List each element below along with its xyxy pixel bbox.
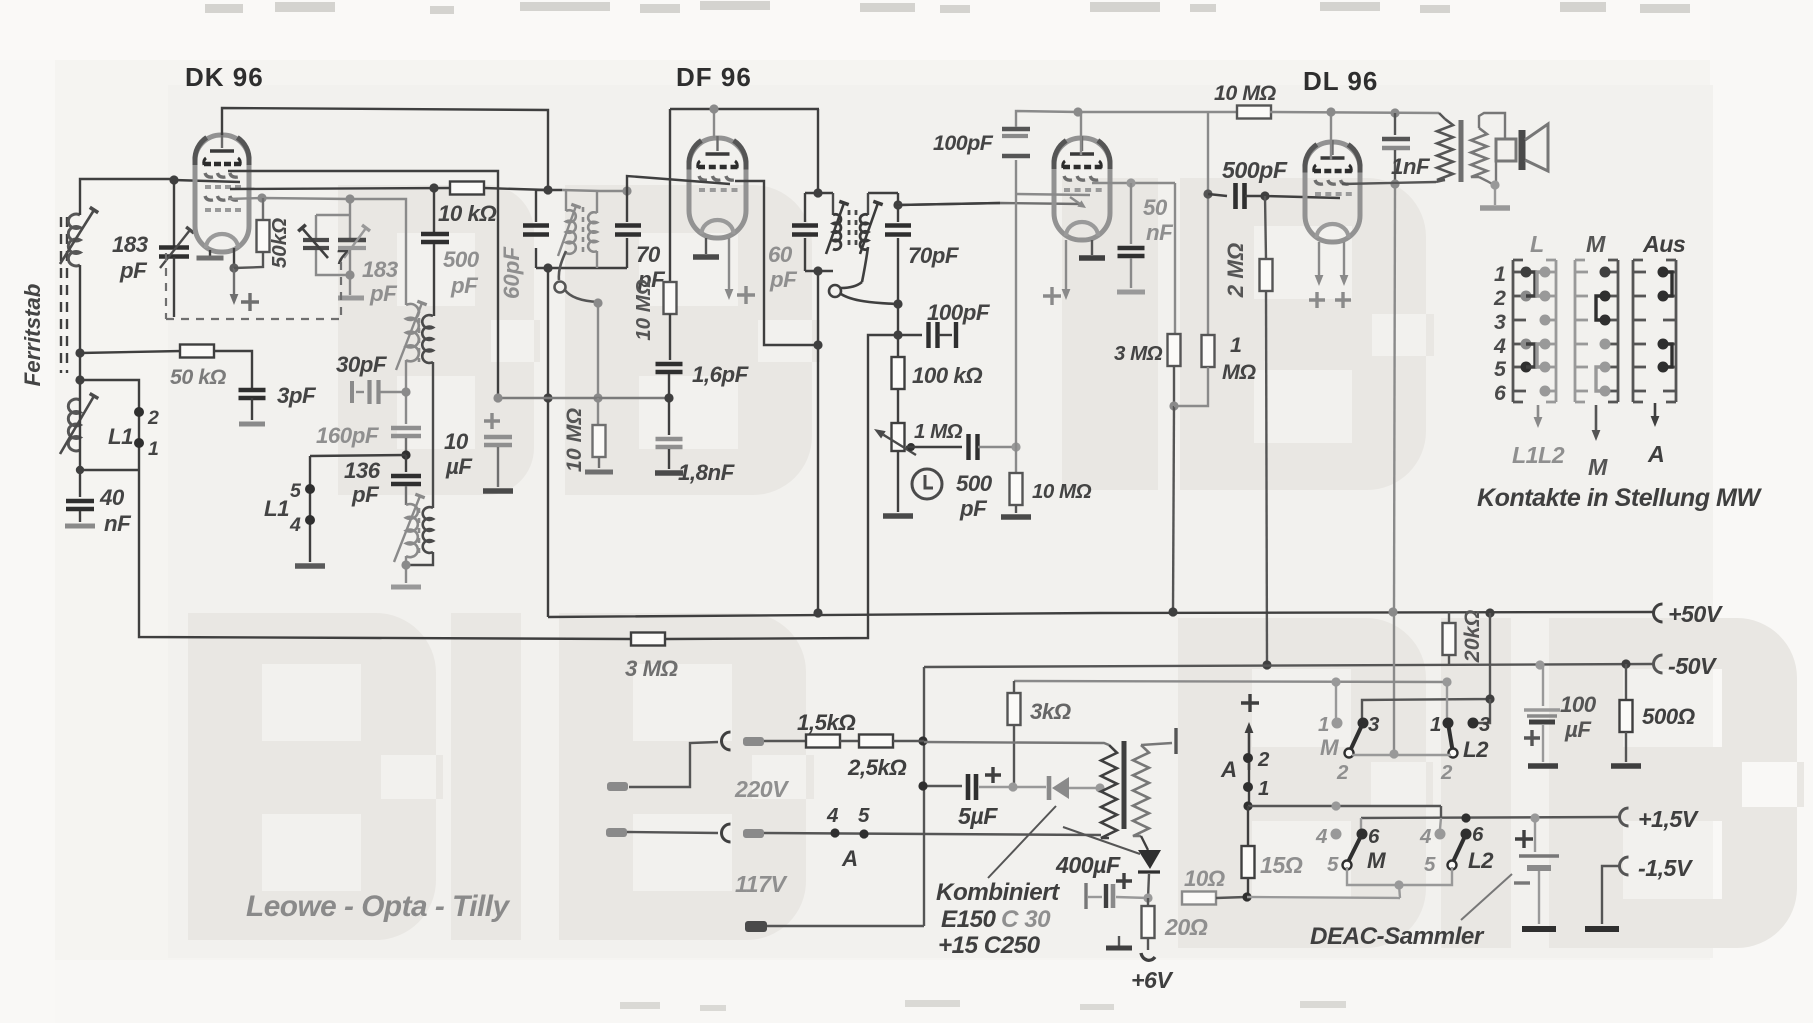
svg-text:10 MΩ: 10 MΩ (632, 279, 655, 341)
svg-text:500pF: 500pF (1222, 157, 1288, 183)
svg-text:100pF: 100pF (927, 300, 991, 325)
svg-text:L2: L2 (1468, 848, 1494, 873)
svg-text:4: 4 (1419, 825, 1432, 848)
labels A 2 1 (1220, 748, 1270, 800)
capacitor 70pF IFT2 (885, 226, 911, 235)
label 400uF (1055, 852, 1121, 878)
tube DK96 (195, 133, 249, 252)
svg-text:136: 136 (344, 458, 381, 483)
wire ferrite column (75, 265, 139, 474)
wire audio coupling long (1394, 184, 1395, 753)
node DAF96 top (1073, 107, 1082, 155)
svg-text:3: 3 (1479, 713, 1491, 736)
svg-text:MΩ: MΩ (1222, 360, 1256, 384)
label 30pF (336, 352, 388, 377)
paper wash center (168, 85, 1713, 958)
label 1MOhm (1222, 333, 1256, 384)
wire output rail right (1270, 107, 1439, 117)
capacitor 136pF (391, 455, 421, 505)
node 160pF junction (401, 450, 410, 459)
heater transformer core (1122, 741, 1127, 829)
oscillator transformer coils (558, 191, 597, 268)
wire DK96 10k row (230, 183, 452, 192)
svg-text:1: 1 (1430, 713, 1441, 736)
svg-text:2: 2 (1336, 761, 1349, 784)
plug bar 220V (743, 737, 764, 746)
wire DL96 anode (1342, 182, 1436, 184)
heater transformer left winding (924, 742, 1117, 838)
antenna coil L lower (60, 394, 98, 455)
output transformer primary (1436, 113, 1453, 182)
svg-text:+1,5V: +1,5V (1638, 806, 1700, 832)
wire detector line (898, 203, 1082, 205)
capacitor 160pF (391, 428, 421, 455)
node 2MOhm junction (1260, 191, 1269, 200)
svg-text:DL 96: DL 96 (1303, 66, 1378, 96)
svg-text:100pF: 100pF (933, 131, 994, 155)
wire bus to detector (666, 335, 896, 639)
wire L2-4 drop (1440, 818, 1441, 829)
wire tank bottom down (543, 268, 552, 617)
resistor 3MOhm (1168, 183, 1181, 411)
capacitor 500pF AF (1208, 183, 1264, 209)
svg-text:3pF: 3pF (277, 383, 317, 408)
label 10MOhm osc rotated (562, 408, 586, 473)
label 10kOhm (438, 201, 496, 226)
IFT2 coils (826, 193, 883, 254)
label 10Ohm (1184, 866, 1225, 891)
ground 400uF (1106, 936, 1132, 948)
label 3pF (277, 383, 317, 408)
output transformer secondary (1471, 113, 1505, 185)
svg-text:220V: 220V (734, 776, 790, 802)
label +6V (1131, 967, 1174, 993)
label 70pF IFT2 (908, 243, 960, 268)
capacitor 1.6pF (656, 364, 683, 398)
svg-text:500: 500 (443, 247, 480, 272)
label 100kOhm (912, 363, 982, 388)
osc tank coil pair lower (394, 362, 433, 562)
label 220V (734, 776, 790, 802)
resistor 100kOhm (892, 357, 905, 423)
speaker (1496, 124, 1548, 185)
wire DAF96 anode side (1092, 178, 1175, 187)
wire 100kOhm column (893, 304, 902, 358)
svg-text:4: 4 (1493, 334, 1506, 358)
wire output rail to 500pF (1203, 112, 1212, 199)
selenium diode (1013, 776, 1105, 800)
resistor 10MOhm DF96 (664, 282, 677, 360)
label 5uF (958, 803, 998, 829)
resistor 1.5kOhm (806, 735, 840, 748)
wire AVC to 50k (80, 351, 182, 353)
svg-text:40: 40 (99, 485, 125, 510)
wire osc grid leak (593, 303, 602, 403)
svg-text:1: 1 (1230, 333, 1241, 357)
wire 50k to 3pF (214, 351, 252, 388)
wire grid into DK96 (174, 180, 240, 182)
svg-text:A: A (1220, 757, 1237, 782)
label 100uF (1560, 692, 1597, 742)
label 136pF (344, 458, 381, 507)
svg-text:6: 6 (1368, 825, 1380, 848)
arrow Aus bank (1651, 403, 1660, 427)
oscillator padder frame (316, 199, 350, 275)
label 1MOhm pot (914, 420, 963, 443)
capacitor 50nF (1117, 183, 1145, 292)
svg-text:A: A (841, 846, 858, 871)
svg-text:Kombiniert: Kombiniert (936, 879, 1060, 906)
svg-text:10 MΩ: 10 MΩ (1032, 480, 1092, 503)
label Aus bank (1642, 231, 1686, 257)
wire -1.5V to ground (1585, 866, 1620, 929)
labels L2 lower (1419, 823, 1494, 876)
label Kontakte in Stellung MW (1477, 484, 1762, 512)
svg-text:160pF: 160pF (316, 423, 380, 448)
svg-text:1: 1 (1258, 777, 1269, 800)
label Leowe-Opta-Tilly (246, 890, 511, 923)
capacitor 500pF coupling (906, 434, 1021, 460)
capacitor 1.8nF (655, 398, 683, 473)
svg-text:20kΩ: 20kΩ (1460, 610, 1484, 664)
rectifier diode lower (1138, 836, 1161, 903)
capacitor 500pF osc (421, 188, 449, 316)
wire +50V rail (548, 607, 1654, 617)
ground speaker (1480, 180, 1510, 208)
wire rectifier line (918, 781, 962, 790)
watermark letters (188, 178, 1804, 948)
label M below (1588, 454, 1608, 480)
switch L2 lower (1435, 829, 1472, 870)
osc coupling coil pair (396, 301, 433, 370)
grid arrow DAF96 (1070, 197, 1086, 208)
svg-text:3: 3 (1368, 713, 1380, 736)
label 500pF osc (443, 247, 480, 298)
arrow M bank (1592, 405, 1601, 441)
heater transformer right winding (1133, 728, 1176, 836)
filament arrows DL96 (1309, 242, 1351, 308)
resistor 20kOhm (1443, 612, 1456, 665)
resistor 50kOhm screen (234, 198, 270, 268)
scan artifacts top edge (205, 1, 1690, 14)
svg-text:60: 60 (768, 242, 793, 267)
wire screen bypass rail (493, 393, 668, 402)
plug bar 117V (743, 829, 764, 838)
svg-text:+50V: +50V (1668, 601, 1724, 627)
resistor 10MOhm feedback (1237, 106, 1271, 119)
label 500pF coupling (956, 471, 993, 521)
oscillator tank frame (536, 185, 632, 272)
svg-text:20Ω: 20Ω (1164, 914, 1208, 940)
label 20Ohm (1164, 914, 1208, 940)
svg-text:5: 5 (858, 804, 870, 827)
wiper node (907, 443, 915, 451)
svg-text:5: 5 (1424, 853, 1436, 876)
L dial symbol (912, 469, 942, 499)
pointer DEAC (1461, 874, 1512, 920)
svg-text:1,5kΩ: 1,5kΩ (797, 710, 855, 735)
svg-text:5: 5 (1327, 853, 1339, 876)
label 3MOhm anode (1114, 342, 1163, 365)
label 183pF osc (362, 257, 399, 306)
switch L2 upper (1443, 718, 1479, 758)
svg-text:E150: E150 (941, 906, 997, 933)
svg-text:5: 5 (290, 480, 302, 502)
svg-text:pF: pF (119, 258, 148, 283)
svg-text:+6V: +6V (1131, 967, 1174, 993)
svg-text:M: M (1588, 454, 1608, 480)
svg-text:15Ω: 15Ω (1260, 852, 1303, 878)
svg-text:A: A (1647, 441, 1664, 467)
label 10uF (444, 429, 473, 479)
svg-text:10 kΩ: 10 kΩ (438, 201, 496, 226)
label L1 right (264, 480, 302, 536)
terminal +1.5V (1620, 806, 1700, 832)
capacitor 5uF (968, 767, 1013, 800)
coil L1 right terminals (295, 456, 325, 566)
arrow L bank (1534, 405, 1543, 428)
svg-text:µF: µF (445, 454, 473, 479)
svg-text:C 30: C 30 (1001, 906, 1051, 933)
svg-text:Leowe - Opta - Tilly: Leowe - Opta - Tilly (246, 890, 511, 923)
tube DAF96 (1054, 136, 1110, 240)
label 183pF (112, 232, 149, 283)
label 160pF (316, 423, 380, 448)
capacitor 100pF anode (1002, 111, 1078, 194)
resistor 10MOhm osc grid (585, 398, 613, 472)
wire 500pF to DL96 (1265, 196, 1340, 198)
scan artifacts bottom edge (620, 1000, 1346, 1011)
svg-text:pF: pF (959, 496, 988, 521)
svg-text:1: 1 (1494, 262, 1505, 286)
switch M upper (1332, 718, 1369, 758)
wire DF96 grid from IFT1 (627, 176, 730, 191)
wire DF96 top rail (670, 104, 819, 138)
switch bank M (1575, 260, 1618, 402)
wire -50V corner down (923, 667, 925, 926)
svg-text:2: 2 (1440, 761, 1453, 784)
resistor 15Ohm (1242, 806, 1255, 902)
wire heater supply line (1014, 677, 1452, 718)
svg-text:400µF: 400µF (1055, 852, 1121, 878)
filament arrow DK96 (229, 248, 259, 311)
svg-text:-1,5V: -1,5V (1638, 855, 1694, 881)
tuning gang dashed box (166, 253, 341, 319)
node 1.6pF junction (664, 393, 673, 402)
wire DF96 anode side (735, 181, 823, 613)
label 60pF IFT2 (768, 242, 798, 292)
label 10MOhm AF (1032, 480, 1092, 503)
label 50kOhm AGC (170, 365, 227, 389)
wire DF96 grid leak column (669, 109, 671, 283)
label 60pF rotated (499, 246, 524, 299)
svg-text:2,5kΩ: 2,5kΩ (847, 755, 906, 780)
svg-text:DF 96: DF 96 (676, 62, 752, 92)
filament arrow DF96 (725, 238, 755, 304)
svg-text:2: 2 (1257, 748, 1270, 771)
wire grid DAF96 (1016, 194, 1090, 195)
node rectifier (1008, 782, 1017, 791)
label 3kOhm (1030, 699, 1071, 724)
capacitor 100pF det (898, 322, 956, 348)
capacitor 1nF (1382, 113, 1410, 189)
svg-text:10Ω: 10Ω (1184, 866, 1225, 891)
wire DK96 screen row (228, 171, 498, 398)
label 7 (336, 246, 349, 269)
label DL96 (1303, 66, 1378, 96)
labels 4 5 A (826, 804, 870, 871)
label 100pF anode (933, 131, 994, 155)
battery DEAC (1514, 818, 1559, 929)
svg-text:Aus: Aus (1642, 231, 1686, 257)
svg-text:M: M (1320, 735, 1339, 760)
label 20kOhm rotated (1460, 610, 1484, 664)
label M bank (1586, 231, 1606, 257)
label 2MOhm rotated (1223, 243, 1248, 299)
svg-text:183: 183 (362, 257, 399, 282)
svg-text:1,8nF: 1,8nF (678, 460, 736, 485)
ground DK96 cathode (197, 250, 224, 258)
plug bottom (745, 921, 924, 932)
svg-text:pF: pF (769, 267, 798, 292)
label L1 left (108, 407, 159, 460)
svg-text:30pF: 30pF (336, 352, 388, 377)
wire osc mid column (405, 360, 407, 424)
label L1L2 (1512, 442, 1565, 468)
wire antenna to grid node (80, 179, 174, 215)
svg-text:L1: L1 (264, 496, 289, 521)
switch M lower (1331, 829, 1368, 870)
label DEAC-Sammler (1310, 923, 1485, 950)
svg-text:50: 50 (1143, 195, 1168, 220)
wire output rail (1078, 111, 1238, 113)
svg-text:L: L (1530, 231, 1544, 257)
label 10MOhm feedback (1214, 81, 1277, 105)
wire lower coil bottom (391, 552, 433, 587)
label 1.5kOhm (797, 710, 855, 735)
svg-text:µF: µF (1564, 717, 1592, 742)
wire AF line up (1015, 194, 1017, 447)
resistor 1MOhm (1174, 194, 1215, 406)
svg-text:500Ω: 500Ω (1642, 704, 1695, 729)
filament arrow DAF96 (1043, 240, 1070, 305)
label 40nF (99, 485, 132, 536)
label 1nF (1391, 154, 1431, 179)
svg-text:6: 6 (1472, 823, 1484, 846)
svg-text:10 MΩ: 10 MΩ (1214, 81, 1277, 105)
potentiometer 1MOhm (874, 423, 916, 516)
capacitor 30pF (352, 380, 411, 404)
coil L1 terminals 2 1 (134, 407, 144, 448)
svg-text:5: 5 (1494, 357, 1507, 381)
label +15 C250 (938, 932, 1041, 959)
label 50nF (1143, 195, 1174, 245)
label 10MOhm DF96 rotated (632, 279, 655, 341)
ferrite rod (61, 217, 67, 373)
osc grid pigtail (555, 251, 603, 308)
row numbers 1-6 (1493, 262, 1507, 405)
capacitor 10uF electrolytic (483, 413, 513, 491)
Ferritstab label (20, 284, 45, 387)
plug 220V upper (607, 732, 731, 791)
label 1.6pF (692, 362, 750, 387)
resistor 20Ohm (1141, 898, 1155, 960)
label 100pF det (927, 300, 991, 325)
label A below (1647, 441, 1664, 467)
svg-text:500: 500 (956, 471, 993, 496)
wire 220V line (764, 736, 928, 745)
capacitor 60pF osc tank (523, 226, 549, 235)
svg-text:10: 10 (444, 429, 469, 454)
terminal -50V (1654, 653, 1719, 679)
svg-text:6: 6 (1494, 381, 1507, 405)
svg-text:Ferritstab: Ferritstab (20, 284, 45, 387)
node grid DK96 (169, 175, 178, 184)
svg-text:L1: L1 (108, 424, 133, 449)
svg-text:Kontakte in Stellung MW: Kontakte in Stellung MW (1477, 484, 1762, 512)
switch bank L (1513, 260, 1556, 402)
resistor 10Ohm (1182, 892, 1246, 905)
wire pole link lower (1347, 867, 1452, 898)
svg-text:3: 3 (1494, 310, 1506, 334)
label 70pF osc tank (636, 242, 666, 292)
resistor 10MOhm AF (1001, 447, 1031, 517)
wire 10k to osc tank (484, 188, 548, 190)
labels M upper (1318, 713, 1380, 784)
terminal +50V (1654, 601, 1724, 627)
svg-text:DK 96: DK 96 (185, 62, 264, 92)
tube DL96 (1305, 140, 1360, 242)
svg-text:2 MΩ: 2 MΩ (1223, 243, 1248, 299)
label DK96 (185, 62, 264, 92)
label E150 C30 (941, 906, 1051, 933)
tube DF96 (689, 136, 746, 238)
svg-text:70pF: 70pF (908, 243, 960, 268)
svg-text:50 kΩ: 50 kΩ (170, 365, 227, 389)
svg-text:4: 4 (289, 514, 301, 536)
resistor 10kOhm (450, 182, 484, 195)
wire +1.5V line (1361, 813, 1620, 829)
svg-text:L2: L2 (1463, 737, 1489, 762)
svg-text:M: M (1367, 848, 1386, 873)
capacitor 70pF osc tank (615, 191, 641, 268)
resistor 50kOhm AGC (180, 345, 214, 358)
svg-text:3kΩ: 3kΩ (1030, 699, 1071, 724)
svg-text:4: 4 (1315, 825, 1328, 848)
wire L1 down to bus (139, 470, 630, 639)
capacitor 40nF (65, 470, 95, 526)
ground DAF96 cathode (1079, 240, 1105, 258)
wire DK96 anode top (222, 108, 548, 190)
wire DK96 osc grid row (228, 193, 406, 305)
resistor 2MOhm (1260, 196, 1273, 670)
svg-text:+15 C250: +15 C250 (938, 932, 1041, 959)
resistor 500Ohm (1611, 664, 1641, 766)
wire L1 branch upper (80, 380, 139, 470)
svg-text:nF: nF (104, 511, 132, 536)
svg-text:70: 70 (636, 242, 661, 267)
svg-text:1,6pF: 1,6pF (692, 362, 750, 387)
wire battery plus column (1241, 694, 1259, 806)
svg-text:pF: pF (351, 482, 380, 507)
svg-text:pF: pF (369, 281, 398, 306)
svg-text:1: 1 (1318, 713, 1329, 736)
wire detector line dark part (898, 203, 1000, 205)
IF transformer 2 frame (805, 109, 903, 345)
plug 117V lower (606, 824, 731, 842)
svg-text:3 MΩ: 3 MΩ (1114, 342, 1163, 365)
svg-text:50kΩ: 50kΩ (268, 218, 291, 268)
